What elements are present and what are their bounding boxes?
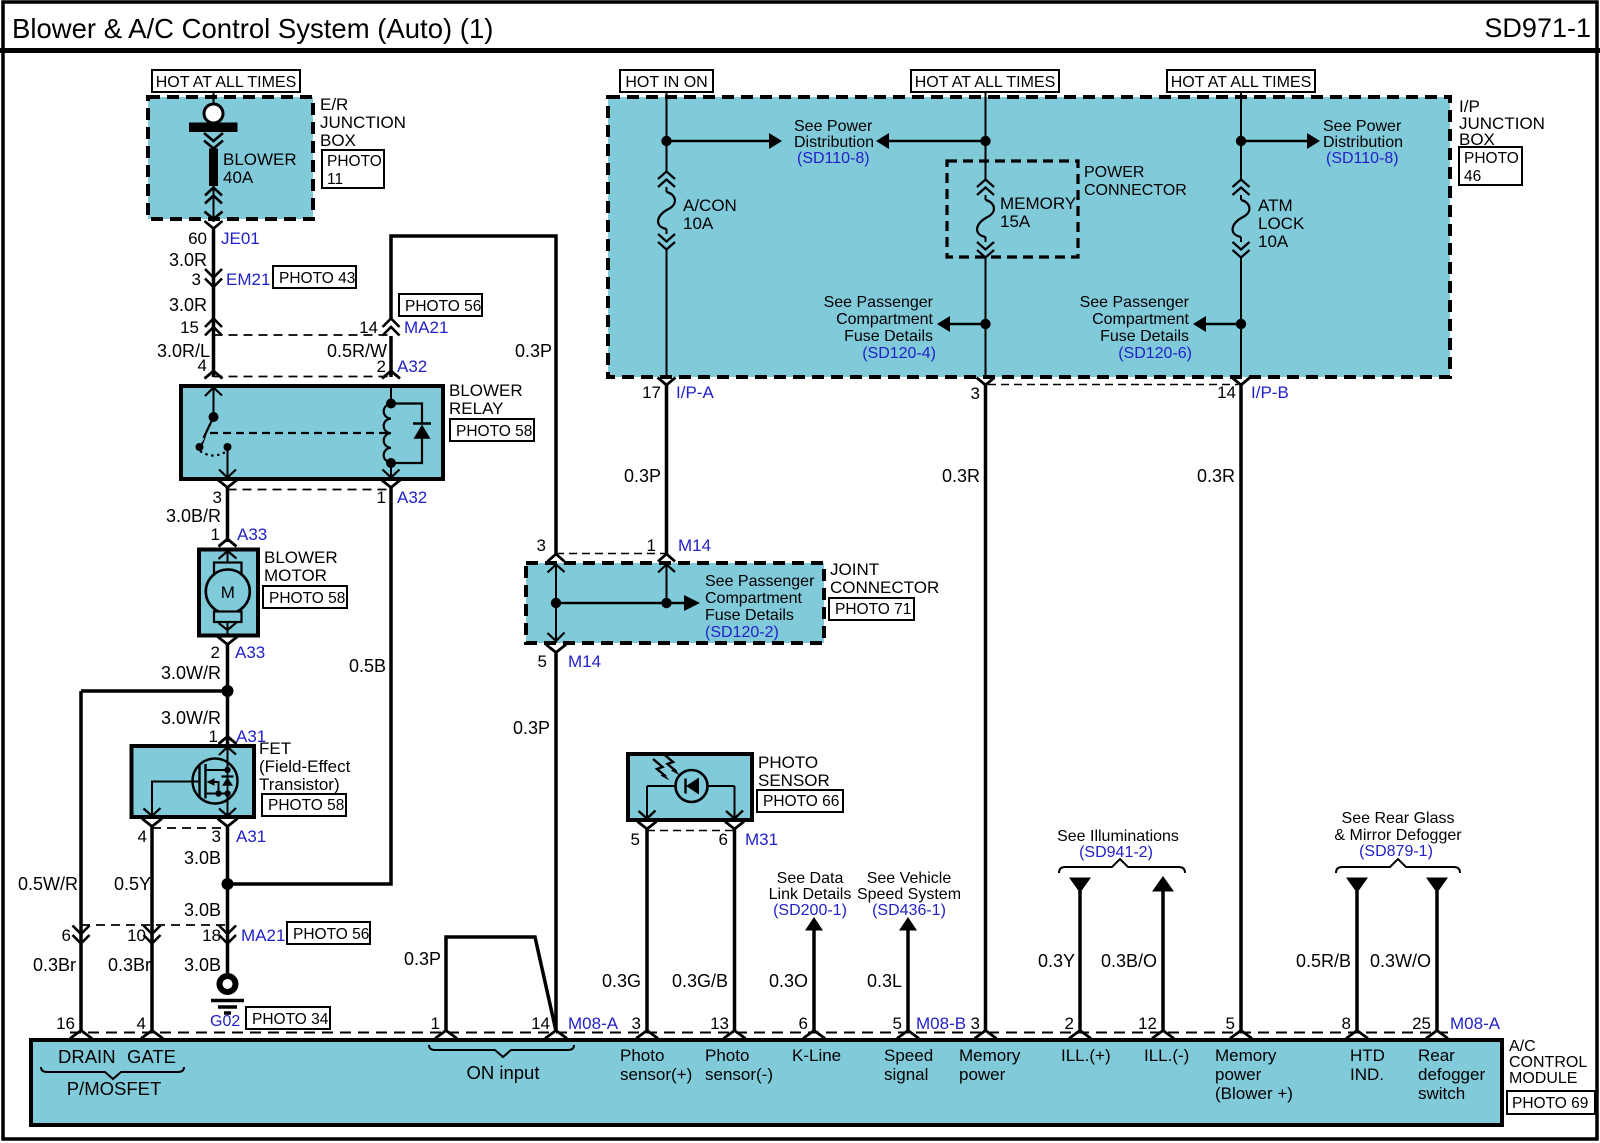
- gate bar: [198, 764, 200, 799]
- wire 0.3B/O ILL-: [1161, 890, 1165, 1031]
- svg-text:ATM: ATM: [1258, 196, 1293, 215]
- svg-text:2: 2: [1065, 1014, 1074, 1033]
- svg-text:CONTROL: CONTROL: [1509, 1054, 1587, 1071]
- svg-text:13: 13: [710, 1014, 729, 1033]
- module pin 4: [141, 1031, 163, 1039]
- photo ref box PHOTO 58 (motor): [263, 586, 347, 608]
- module pin 8: [1346, 1031, 1368, 1039]
- svg-text:3: 3: [537, 536, 546, 555]
- svg-text:Distribution: Distribution: [1323, 134, 1403, 151]
- svg-text:3.0R: 3.0R: [169, 250, 207, 270]
- svg-text:MODULE: MODULE: [1509, 1070, 1577, 1087]
- svg-text:PHOTO 71: PHOTO 71: [835, 601, 911, 618]
- svg-text:3.0R: 3.0R: [169, 295, 207, 315]
- svg-text:LOCK: LOCK: [1258, 214, 1305, 233]
- svg-text:6: 6: [719, 830, 728, 849]
- svg-text:A33: A33: [237, 525, 267, 544]
- svg-text:40A: 40A: [223, 168, 254, 187]
- relay coil wire top dot: [390, 386, 392, 404]
- svg-text:See Passenger: See Passenger: [705, 573, 815, 590]
- svg-text:PHOTO 56: PHOTO 56: [293, 926, 369, 943]
- relay switch blade (open): [204, 417, 214, 438]
- module pin 1: [435, 1031, 457, 1039]
- module label Memory power: [959, 1046, 1021, 1084]
- joint connector arrow: [684, 595, 700, 611]
- transistor Q1 circle: [193, 759, 238, 804]
- text See Vehicle Speed System: [857, 870, 961, 919]
- fuse MEMORY label: [1000, 194, 1076, 231]
- arrow memory fuse details (pointing left): [937, 316, 986, 332]
- svg-text:0.3R: 0.3R: [1197, 466, 1235, 486]
- svg-text:4: 4: [137, 1014, 146, 1033]
- svg-text:power: power: [1215, 1065, 1262, 1084]
- module pin 14 M08-A: [545, 1031, 567, 1039]
- svg-text:25: 25: [1412, 1014, 1431, 1033]
- ILL(+) arrow down: [1069, 878, 1091, 894]
- dashed connector line M14 top: [556, 553, 667, 555]
- svg-text:ILL.(-): ILL.(-): [1144, 1046, 1189, 1065]
- connector MA21 pin 14: [383, 319, 400, 336]
- svg-text:A32: A32: [397, 357, 427, 376]
- svg-text:(SD110-8): (SD110-8): [797, 150, 870, 167]
- svg-text:JUNCTION: JUNCTION: [320, 113, 406, 132]
- svg-text:A32: A32: [397, 488, 427, 507]
- light arrows: [653, 754, 680, 781]
- module pin 25 M08-A: [1426, 1031, 1448, 1039]
- connector chevrons below bus bar: [204, 133, 223, 149]
- module label Speed signal: [884, 1046, 933, 1084]
- svg-text:SD971-1: SD971-1: [1484, 13, 1591, 43]
- dashed connector line A32 bottom: [228, 489, 392, 491]
- brace P/MOSFET: [41, 1067, 184, 1079]
- svg-text:HTD: HTD: [1350, 1046, 1385, 1065]
- svg-text:Speed: Speed: [884, 1046, 933, 1065]
- gate lead: [152, 782, 200, 818]
- svg-text:M14: M14: [678, 536, 711, 555]
- brace See Illuminations: [1059, 859, 1185, 873]
- photo ref box PHOTO 71: [829, 598, 914, 620]
- relay contact dot left: [196, 443, 204, 451]
- svg-text:M08-B: M08-B: [916, 1014, 966, 1033]
- battery terminal circle: [204, 104, 223, 123]
- svg-text:0.5Y: 0.5Y: [114, 874, 151, 894]
- svg-text:PHOTO 56: PHOTO 56: [405, 298, 481, 315]
- svg-text:JE01: JE01: [221, 229, 260, 248]
- svg-text:(SD110-8): (SD110-8): [1326, 150, 1399, 167]
- svg-text:Compartment: Compartment: [836, 311, 933, 328]
- relay coil bottom dot: [386, 458, 396, 468]
- arrow atm fuse details (pointing left): [1193, 316, 1241, 332]
- svg-text:defogger: defogger: [1418, 1065, 1485, 1084]
- svg-text:3.0B: 3.0B: [184, 955, 221, 975]
- motor brush bottom: [214, 612, 242, 623]
- svg-text:60: 60: [188, 229, 207, 248]
- svg-text:BLOWER: BLOWER: [449, 381, 523, 400]
- photo ref box PHOTO 58 (FET): [262, 794, 346, 816]
- module pin 12: [1152, 1031, 1174, 1039]
- svg-text:PHOTO 43: PHOTO 43: [279, 270, 355, 287]
- relay coil exit feathers: [383, 470, 400, 478]
- joint connector exit chevron 5 M14: [546, 645, 566, 653]
- svg-text:0.3L: 0.3L: [867, 971, 902, 991]
- photodiode triangle and bar: [684, 779, 686, 794]
- wire 0.3G/B photo- to module: [733, 829, 737, 1031]
- wire 0.5B from relay pin1 down: [228, 488, 392, 885]
- svg-text:G02: G02: [210, 1013, 240, 1030]
- wire ATM LOCK feed: [1240, 92, 1242, 180]
- module pin 3 (photo+): [636, 1031, 658, 1039]
- photo ref box PHOTO 66: [757, 790, 843, 812]
- svg-text:0.3P: 0.3P: [624, 466, 661, 486]
- photo ref box PHOTO 34: [246, 1007, 330, 1029]
- svg-text:1: 1: [647, 536, 656, 555]
- relay output wire with arrow feathers: [227, 450, 229, 478]
- svg-text:18: 18: [202, 926, 221, 945]
- svg-text:PHOTO 58: PHOTO 58: [269, 590, 345, 607]
- relay exit chevron pin 1: [381, 480, 401, 488]
- dashed connector line A31: [152, 827, 228, 829]
- svg-text:(SD200-1): (SD200-1): [773, 902, 847, 919]
- svg-text:(SD120-6): (SD120-6): [1118, 345, 1192, 362]
- connector MA21 pin 6: [73, 926, 90, 944]
- svg-text:M31: M31: [745, 830, 778, 849]
- svg-text:See Power: See Power: [1323, 118, 1402, 135]
- svg-text:PHOTO 34: PHOTO 34: [252, 1011, 329, 1028]
- wire 0.5R/B HTD: [1355, 891, 1359, 1031]
- label HOT AT ALL TIMES (memory): [911, 70, 1059, 92]
- svg-text:3: 3: [213, 488, 222, 507]
- flyback diode branch: [391, 404, 422, 464]
- branch wire to drain column: [81, 689, 228, 693]
- svg-text:15A: 15A: [1000, 212, 1031, 231]
- svg-text:16: 16: [56, 1014, 75, 1033]
- svg-text:1: 1: [431, 1014, 440, 1033]
- svg-text:3: 3: [971, 1014, 980, 1033]
- node dot atm fuse details: [1236, 319, 1246, 329]
- wire stub into E/R box: [213, 92, 215, 104]
- svg-text:See Data: See Data: [777, 870, 844, 887]
- svg-text:M08-A: M08-A: [568, 1014, 619, 1033]
- svg-text:0.5R/B: 0.5R/B: [1296, 951, 1351, 971]
- I/P junction box: [608, 97, 1450, 377]
- svg-text:0.3B/O: 0.3B/O: [1101, 951, 1157, 971]
- svg-text:PHOTO: PHOTO: [327, 153, 382, 170]
- svg-text:ON input: ON input: [466, 1062, 539, 1083]
- svg-text:M: M: [221, 583, 235, 602]
- svg-text:2: 2: [377, 357, 386, 376]
- svg-text:(SD436-1): (SD436-1): [872, 902, 946, 919]
- module label Memory power (Blower +): [1215, 1046, 1293, 1103]
- svg-text:3.0W/R: 3.0W/R: [161, 663, 221, 683]
- joint entry feathers left: [548, 565, 565, 573]
- module pin 6: [803, 1031, 825, 1039]
- svg-text:SENSOR: SENSOR: [758, 771, 830, 790]
- svg-text:(SD120-2): (SD120-2): [705, 624, 779, 641]
- svg-text:MA21: MA21: [241, 926, 285, 945]
- svg-text:Fuse Details: Fuse Details: [844, 328, 933, 345]
- text See Rear Glass & Mirror Defogger: [1334, 810, 1462, 860]
- photo sensor lead pin6: [734, 786, 736, 820]
- module label Photo sensor(-): [705, 1046, 773, 1084]
- photo sensor exit chevron 6 M31: [725, 822, 744, 830]
- wire 0.5R/W from MA21 to relay pin 2: [389, 336, 393, 377]
- text See Power Distribution (left): [794, 118, 874, 167]
- body diode: [227, 770, 229, 794]
- svg-text:5: 5: [1226, 1014, 1235, 1033]
- module pin 2: [1069, 1031, 1091, 1039]
- wire 0.3G photo+ to module: [645, 829, 649, 1031]
- module label Photo sensor(+): [620, 1046, 692, 1084]
- dashed connector line I/P exits: [988, 384, 1238, 386]
- fuse MEMORY 15A: [977, 180, 994, 258]
- svg-text:Blower & A/C Control System (A: Blower & A/C Control System (Auto) (1): [12, 13, 493, 44]
- svg-text:14: 14: [1217, 383, 1236, 402]
- wire 3.0B FET to ground: [226, 827, 230, 974]
- svg-text:CONNECTOR: CONNECTOR: [830, 578, 939, 597]
- motor internal wire: [227, 549, 229, 635]
- svg-text:0.3P: 0.3P: [513, 718, 550, 738]
- svg-text:CONNECTOR: CONNECTOR: [1084, 182, 1187, 199]
- svg-text:14: 14: [531, 1014, 550, 1033]
- label HOT AT ALL TIMES (atm lock): [1167, 70, 1315, 92]
- photo sensor exit chevron 5: [638, 822, 657, 830]
- svg-text:17: 17: [642, 383, 661, 402]
- svg-text:HOT IN ON: HOT IN ON: [625, 74, 707, 91]
- svg-text:Transistor): Transistor): [259, 775, 340, 794]
- svg-text:0.3O: 0.3O: [769, 971, 808, 991]
- svg-text:8: 8: [1342, 1014, 1351, 1033]
- bus bar: [189, 123, 238, 133]
- svg-text:See Power: See Power: [794, 118, 873, 135]
- svg-text:A/CON: A/CON: [683, 196, 737, 215]
- label HOT IN ON: [620, 70, 713, 92]
- joint connector bus dots: [551, 598, 561, 608]
- svg-text:Memory: Memory: [1215, 1046, 1277, 1065]
- FET exit feathers source: [219, 808, 236, 816]
- svg-text:FET: FET: [259, 739, 291, 758]
- source arrow tap: [214, 782, 219, 794]
- fuse A/CON label: [683, 196, 737, 233]
- node dot MEMORY: [980, 136, 990, 146]
- text See Passenger Compartment Fuse Details SD120-4: [824, 294, 936, 362]
- svg-text:10: 10: [127, 926, 146, 945]
- wire 0.3R atm to module: [1239, 385, 1243, 1031]
- wire 0.5W/R drain column: [79, 691, 83, 1031]
- svg-text:Photo: Photo: [705, 1046, 749, 1065]
- svg-text:BOX: BOX: [320, 131, 356, 150]
- svg-text:I/P-B: I/P-B: [1251, 383, 1289, 402]
- svg-text:4: 4: [138, 827, 147, 846]
- power connector label: [1084, 164, 1187, 199]
- wire below A/CON fuse: [666, 249, 668, 375]
- node dot ATM LOCK: [1236, 136, 1246, 146]
- svg-text:5: 5: [893, 1014, 902, 1033]
- relay switch: entry arrow feathers: [205, 388, 222, 397]
- title underline bar: [0, 48, 1600, 53]
- arrow to See Power Distribution (right): [1241, 133, 1320, 149]
- connector EM21 pin 3: [205, 269, 222, 287]
- svg-text:1: 1: [209, 727, 218, 746]
- svg-text:0.3G: 0.3G: [602, 971, 641, 991]
- I/P box exit chevron 3: [977, 378, 995, 386]
- svg-text:PHOTO 69: PHOTO 69: [1512, 1095, 1588, 1112]
- photo ref box PHOTO 46: [1459, 147, 1522, 185]
- FET exit chevron pin 4: [142, 819, 162, 827]
- wire 0.3P joint connector to module pin 14: [554, 653, 558, 1032]
- motor entry feathers: [219, 551, 237, 559]
- svg-text:GATE: GATE: [127, 1046, 176, 1067]
- node dot A/CON: [661, 136, 671, 146]
- svg-text:Rear: Rear: [1418, 1046, 1455, 1065]
- K-line arrow up: [805, 917, 823, 931]
- FET box: [132, 746, 255, 817]
- svg-text:A/C: A/C: [1509, 1038, 1536, 1055]
- junction dot 3.0B / 0.5B: [222, 878, 234, 890]
- svg-text:HOT AT ALL TIMES: HOT AT ALL TIMES: [1171, 74, 1312, 91]
- drain lead top: [206, 746, 228, 770]
- joint entry feathers right: [658, 565, 675, 573]
- svg-text:0.3P: 0.3P: [404, 949, 441, 969]
- HTD IND arrow down: [1346, 878, 1368, 894]
- photo sensor label: [758, 753, 830, 790]
- svg-text:sensor(-): sensor(-): [705, 1065, 773, 1084]
- module pin 5 M08-B: [897, 1031, 919, 1039]
- wire below ATM fuse: [1240, 257, 1242, 375]
- connector MA21 pin 10: [144, 926, 161, 944]
- svg-text:2: 2: [211, 643, 220, 662]
- wire 0.5Y gate column: [150, 827, 154, 1032]
- svg-text:HOT AT ALL TIMES: HOT AT ALL TIMES: [915, 74, 1056, 91]
- svg-text:1: 1: [377, 488, 386, 507]
- svg-text:PHOTO: PHOTO: [1464, 150, 1519, 167]
- module pin 13: [724, 1031, 746, 1039]
- svg-text:11: 11: [327, 171, 343, 188]
- arrow to See Power Distribution (left): [667, 133, 783, 149]
- svg-text:6: 6: [62, 926, 71, 945]
- wire 0.3P loop from MA21-14 over relay to joint connector: [391, 236, 556, 554]
- joint exit feathers: [548, 633, 565, 642]
- svg-text:A31: A31: [236, 827, 266, 846]
- E/R junction box: [148, 97, 313, 219]
- jumper wire ON input pins 1-14: [446, 937, 556, 1031]
- wire 0.3Y ILL+: [1078, 891, 1082, 1031]
- svg-text:RELAY: RELAY: [449, 399, 504, 418]
- module label Rear defogger switch: [1418, 1046, 1485, 1103]
- E/R junction box label: [320, 95, 406, 150]
- I/P box exit chevron 17 I/P-A: [658, 378, 676, 386]
- svg-text:M08-A: M08-A: [1450, 1014, 1501, 1033]
- svg-text:PHOTO 58: PHOTO 58: [456, 423, 532, 440]
- joint connector label: [830, 560, 939, 597]
- svg-text:10A: 10A: [683, 214, 714, 233]
- svg-text:BLOWER: BLOWER: [264, 548, 338, 567]
- fuse ATM LOCK 10A: [1233, 180, 1250, 258]
- svg-text:4: 4: [198, 356, 207, 375]
- svg-text:See Vehicle: See Vehicle: [867, 870, 952, 887]
- blower motor box: [199, 550, 258, 636]
- svg-text:E/R: E/R: [320, 95, 348, 114]
- svg-text:0.3Br: 0.3Br: [33, 955, 76, 975]
- text See Data Link Details: [769, 870, 852, 919]
- svg-text:3: 3: [971, 384, 980, 403]
- brace ON input: [429, 1045, 574, 1057]
- svg-text:3: 3: [192, 270, 201, 289]
- relay switch pivot dot: [209, 412, 219, 422]
- speed signal arrow up: [899, 917, 917, 931]
- svg-text:EM21: EM21: [226, 270, 270, 289]
- wire 0.3P I/P-A to joint connector: [665, 385, 669, 554]
- connector MA21 pin 18: [219, 926, 236, 944]
- svg-text:3: 3: [212, 827, 221, 846]
- photo ref box PHOTO 11: [322, 150, 384, 188]
- svg-text:3.0W/R: 3.0W/R: [161, 708, 221, 728]
- motor entry chevron: [219, 539, 237, 547]
- svg-text:3: 3: [632, 1014, 641, 1033]
- FET entry feathers: [219, 747, 236, 755]
- arrow from memory wire to text (pointing left): [876, 133, 986, 149]
- svg-text:Fuse Details: Fuse Details: [705, 607, 794, 624]
- wire MEMORY feed: [985, 92, 987, 180]
- svg-text:3.0B: 3.0B: [184, 848, 221, 868]
- FET exit chevron pin 3: [218, 819, 238, 827]
- joint connector box: [526, 563, 824, 643]
- svg-text:3.0B: 3.0B: [184, 900, 221, 920]
- svg-text:Link Details: Link Details: [769, 886, 852, 903]
- svg-text:PHOTO 66: PHOTO 66: [763, 793, 839, 810]
- I/P junction box label: [1459, 97, 1545, 149]
- relay switch common wire: [213, 386, 215, 417]
- wire 3.0B/R relay to motor: [226, 488, 230, 543]
- svg-text:15: 15: [180, 318, 199, 337]
- svg-text:0.3P: 0.3P: [515, 341, 552, 361]
- relay label BLOWER RELAY: [449, 381, 523, 418]
- wire below MEMORY fuse: [985, 257, 987, 375]
- FET entry chevron: [219, 737, 237, 745]
- wire 0.3W/O defogger: [1435, 891, 1439, 1031]
- module name A/C CONTROL MODULE: [1509, 1038, 1587, 1087]
- joint connector bus wire: [556, 602, 685, 604]
- text See Power Distribution (right): [1323, 118, 1403, 167]
- svg-text:(SD941-2): (SD941-2): [1079, 844, 1153, 861]
- svg-text:See Passenger: See Passenger: [1080, 294, 1190, 311]
- fuse ATM LOCK label: [1258, 196, 1305, 251]
- junction dot 3.0W/R / 0.5W/R: [222, 685, 234, 697]
- ILL(-) arrow up: [1152, 876, 1174, 892]
- svg-text:(SD120-4): (SD120-4): [862, 345, 936, 362]
- svg-text:0.3Br: 0.3Br: [108, 955, 151, 975]
- svg-text:12: 12: [1138, 1014, 1157, 1033]
- svg-text:BLOWER: BLOWER: [223, 150, 297, 169]
- svg-text:6: 6: [799, 1014, 808, 1033]
- svg-text:0.3G/B: 0.3G/B: [672, 971, 728, 991]
- joint connector entry pin 3: [548, 554, 565, 562]
- svg-text:10A: 10A: [1258, 232, 1289, 251]
- svg-text:PHOTO 58: PHOTO 58: [268, 797, 344, 814]
- svg-text:ILL.(+): ILL.(+): [1061, 1046, 1111, 1065]
- dashed connector line MA21 bottom row: [81, 924, 228, 926]
- svg-text:(SD879-1): (SD879-1): [1359, 843, 1433, 860]
- svg-text:A33: A33: [235, 643, 265, 662]
- fuse A/CON 10A: [658, 172, 675, 250]
- diode cathode bar: [413, 422, 431, 425]
- svg-text:& Mirror Defogger: & Mirror Defogger: [1334, 827, 1462, 844]
- photodiode circle: [676, 770, 708, 802]
- ground G02 symbol: [211, 976, 244, 1013]
- relay entry chevron pin 2: [382, 371, 400, 379]
- svg-text:46: 46: [1464, 168, 1481, 185]
- relay exit chevron pin 3: [218, 480, 238, 488]
- svg-text:1: 1: [211, 525, 220, 544]
